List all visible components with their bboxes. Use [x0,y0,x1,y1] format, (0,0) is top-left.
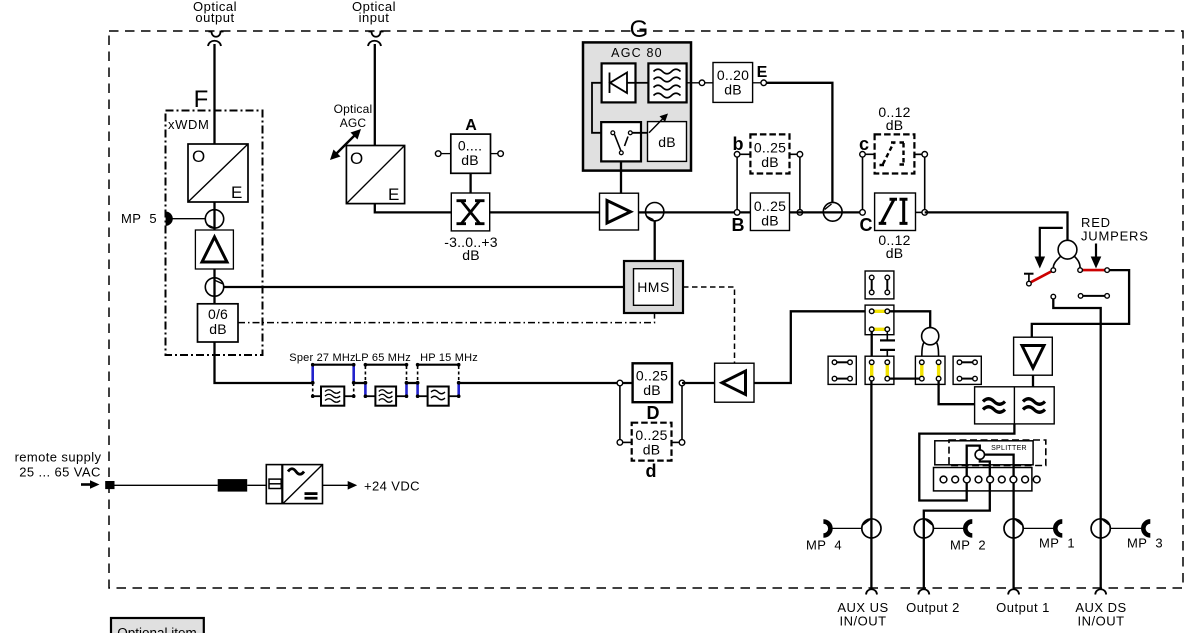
svg-text:E: E [388,185,399,204]
connector strip box [934,468,1032,491]
measurement point MP1 [1004,519,1075,551]
svg-text:JUMPERS: JUMPERS [1081,229,1149,244]
wire splitter to Output 1 [985,455,1014,588]
jumper block JB-right (spare, horizontal links) [953,356,981,384]
filter LP 65 MHz box [365,387,406,406]
svg-text:HP 15 MHz: HP 15 MHz [420,352,478,364]
svg-text:dB: dB [461,152,479,168]
svg-text:MP4: MP4 [806,538,842,553]
optical input connector J-in [368,32,384,47]
equalizer EQ1 (slope X symbol) [451,193,489,231]
svg-text:c: c [859,134,869,154]
splitter dashed box [949,440,1046,466]
annotation arrow to right red jumper [1091,244,1102,269]
Output 1 bottom connector [1008,589,1019,594]
wire LP to HP [407,382,418,384]
wire JB2 to balun B2 [890,311,931,328]
red jumper P1-P2 [1031,271,1052,282]
stub b left [737,153,750,155]
AUX DS bottom connector [1095,589,1106,594]
svg-text:+24 VDC: +24 VDC [364,479,420,494]
attenuator D 0..25 dB [633,363,672,402]
wire amp A1 to tap T2 [213,269,215,278]
tap coupler T2 (to HMS) [205,278,223,296]
measurement point MP2 [914,519,986,553]
svg-text:dB: dB [643,382,661,398]
red jumper P3-P4 [1082,269,1105,272]
label Optical output [193,0,237,25]
label AUX DS IN/OUT [1075,600,1126,629]
wire PD1 to switch S1 [592,83,602,133]
wire EQ1 to amp A2 [490,211,600,213]
svg-text:0/6: 0/6 [208,306,228,322]
optional slope equalizer c (dashed) [875,134,915,173]
svg-text:IN/OUT: IN/OUT [839,614,886,629]
annotation arrow to left red jumper [1035,228,1063,269]
Sper bypass bridge [313,365,354,383]
svg-text:AGC 80: AGC 80 [611,46,663,60]
legend Optional item box [111,618,204,633]
HMS module [624,261,683,313]
wire PD1 to filter [636,82,649,84]
svg-text:HMS: HMS [637,279,670,295]
label Optical input [352,0,396,25]
downstream amp A4 (pointing down) [1014,337,1053,375]
Sper blue jumpers (bypass active) [313,366,354,382]
wire optical output vertical [213,44,215,146]
wire P4 to down amp A4 [1032,270,1129,337]
switch S1 [601,122,641,161]
terminal node left of A [435,151,450,157]
wire P5 to AUX DS line [1053,299,1100,588]
wire 0/6 dB down to diplex filter line [215,342,313,383]
svg-text:remote supply: remote supply [15,450,102,465]
wire D to return amp A3 [682,382,715,384]
wire A3 to jumper block JB2 [754,311,870,383]
svg-text:dB: dB [886,117,904,133]
LP blue jumpers (filter in path) [365,383,406,396]
wire splitter to Output 2 [924,459,990,588]
svg-text:Sper 27 MHz: Sper 27 MHz [289,352,355,364]
label RED JUMPERS [1081,215,1149,244]
wire tap T2 to 0/6 dB [213,296,215,304]
svg-text:dB: dB [761,154,779,170]
node b right vertical link [799,154,801,212]
optional attenuator d 0..25 dB (dashed) [632,423,672,461]
svg-text:dB: dB [462,247,480,263]
balun B2 [922,328,939,360]
wire A4 to diplex filter FD [1032,375,1034,387]
svg-text:O: O [192,147,205,166]
svg-text:Output2: Output2 [906,600,960,615]
label remote supply 25 ... 65 VAC [15,450,102,480]
amplifier A1 (upstream, pointing up) [195,230,233,269]
photodiode PD1 [602,63,636,102]
wire O/E-in to equalizer [375,204,452,213]
O/E converter U-in (input) [346,146,404,205]
svg-text:xWDM: xWDM [168,117,209,132]
terminator above JB3 right pin [880,350,895,360]
wire C to red jumper field [925,212,1068,240]
wire B to coupler T4 [790,211,863,213]
fuse F1 (black body) [218,479,248,492]
jumper block JB3 (yellow vertical links) [865,356,894,384]
svg-text:E: E [757,64,768,81]
svg-text:output: output [195,10,234,25]
wire A to equalizer EQ1 [469,173,471,193]
terminal node right of A [491,151,504,157]
LP bypass bridge with dashed risers [365,365,406,381]
tap coupler T1 (below output O/E) [205,210,223,228]
outer dashed enclosure border [109,31,1183,588]
wire T2 to HMS (forward tap line) [224,286,624,288]
svg-text:dB: dB [761,213,779,229]
Sper dashed drops to filter [313,383,354,396]
wire HP to attenuator D [459,382,633,384]
bypass links around D [620,383,682,442]
svg-text:dB: dB [658,134,676,150]
svg-text:d: d [646,461,657,481]
0..20 dB AGC output attenuator [687,63,753,103]
wire A2 to tap T3 [639,211,647,213]
HP bypass bridge with dashed risers [418,365,459,381]
jumper block JB2 (yellow horizontal links) [865,305,894,335]
balun B1 over red jumpers [1053,240,1080,268]
node circles around c/C [860,152,928,216]
svg-text:LP 65 MHz: LP 65 MHz [355,352,411,364]
jumper pins P1..P7 [1027,268,1110,299]
svg-text:MP1: MP1 [1039,536,1075,551]
svg-text:dB: dB [886,245,904,261]
svg-text:input: input [359,10,390,25]
svg-text:IN/OUT: IN/OUT [1077,614,1124,629]
node circles around b/B [734,152,802,216]
svg-text:C: C [860,215,873,235]
svg-text:Output1: Output1 [996,600,1050,615]
optional attenuator b 0..25 dB (dashed) [750,134,789,173]
terminator T at pin P1 [1024,274,1034,281]
label 0..12 dB below C [878,232,910,261]
svg-text:dB: dB [724,82,742,98]
black link P6-P7 [1083,295,1105,297]
wire MP5 to tap T1 [173,218,206,220]
stub c right [914,153,924,155]
jumper block JB4 (yellow vertical links) [915,356,945,384]
label Optical AGC [334,102,373,130]
remote supply terminal (black square on border) [105,481,114,489]
splitter housing solid box [935,441,1033,465]
MP 5 test point socket [166,212,173,226]
optional block F xWDM dashed outline [166,111,263,356]
junction dots HP [416,363,461,398]
label -3..0..+3 dB [444,234,498,263]
wire switch S1 down to amp A2 [620,161,622,193]
dashed control line HMS to return amp A3 [683,287,735,363]
remote supply arrow [81,480,100,489]
measurement point MP4 [806,519,881,553]
wire JB4 to diplex filter FD [939,381,975,404]
svg-text:E: E [231,183,242,202]
stub c left [863,153,875,155]
attenuator B 0..25 dB [750,193,789,231]
wire Sper to LP [354,382,366,384]
filter Sper 27 MHz box [321,387,344,406]
wire JB3 down AUX US line [870,381,872,588]
node c right vertical link [924,154,926,212]
junction dots Sper [311,363,356,398]
measurement point MP3 [1091,519,1163,551]
power supply PSU (AC/DC converter) [266,465,322,504]
svg-text:G: G [630,16,649,43]
svg-text:MP2: MP2 [950,538,986,553]
slope equalizer C [875,193,916,231]
optical output connector J-out [208,32,224,47]
attenuator A 0.... dB [451,134,491,173]
svg-text:B: B [732,215,745,235]
splitter node S [975,450,984,459]
svg-text:D: D [647,403,660,423]
wire FD out to splitter (U route) [919,424,1014,501]
coupler T4 (E injection) [823,202,842,221]
AUX US bottom connector [866,589,877,594]
svg-text:F: F [194,86,209,113]
svg-text:dB: dB [643,442,661,458]
svg-text:SPLITTER: SPLITTER [991,445,1027,452]
connector strip contacts [940,476,1040,483]
dash-dot control line 0/6 dB to HMS [238,313,655,322]
junction dots LP [364,363,409,398]
terminator below JB2 right pin [880,332,895,341]
svg-text:O: O [350,149,363,168]
wire fuse to PSU [247,484,266,486]
stub C right [914,153,924,155]
svg-text:AGC: AGC [340,116,367,130]
node circles around D/d [617,380,685,445]
optical AGC double arrow [330,129,361,160]
jumper block JB-left (spare, horizontal links) [828,356,856,384]
label AUX US IN/OUT [837,600,888,629]
E/O converter U-out (output) [188,144,248,202]
stub b right [790,153,800,155]
svg-text:Optical: Optical [334,102,373,116]
tap coupler T3 (to HMS) [645,203,750,221]
node B-left-bottom vertical link [736,154,738,212]
diplex filter FD (double wavy box) [975,387,1055,424]
return amp A3 (pointing left) [715,363,754,402]
wire T3 down to HMS [654,221,656,261]
svg-text:Optional item: Optional item [117,626,197,633]
svg-text:A: A [465,117,477,134]
AGC 80 module box [583,42,691,170]
svg-text:MP3: MP3 [1127,536,1163,551]
HP blue jumpers (filter in path) [418,383,459,396]
svg-text:dB: dB [209,321,227,337]
node c left vertical link [862,154,864,212]
jumper block JB1 (spare, vertical links) [865,271,894,299]
node E and wire E down to coupler T4 [753,80,833,203]
wire JB3 to JB4 [890,377,920,379]
label 0..12 dB above c [878,104,910,133]
wire switch to dB attenuator [632,132,649,134]
variable attenuator dB box [648,114,687,162]
wire O/E-out to tap [213,202,215,210]
svg-text:25 ... 65 VAC: 25 ... 65 VAC [19,465,101,480]
filter HP 15 MHz box [418,387,459,406]
wire tap T1 to amp A1 [213,228,215,230]
attenuator 0/6 dB [198,304,239,342]
wire PSU to +24 VDC arrow [323,481,358,490]
Output 2 bottom connector [918,589,929,594]
wire optical input vertical [374,44,376,146]
filter F-agc (wavy) [648,63,686,102]
amplifier A2 (main, pointing right) [600,193,639,230]
svg-text:MP5: MP5 [121,211,157,226]
wire terminal to fuse [115,484,218,486]
wire JB2 bottom-left down to JB3 [871,332,873,361]
